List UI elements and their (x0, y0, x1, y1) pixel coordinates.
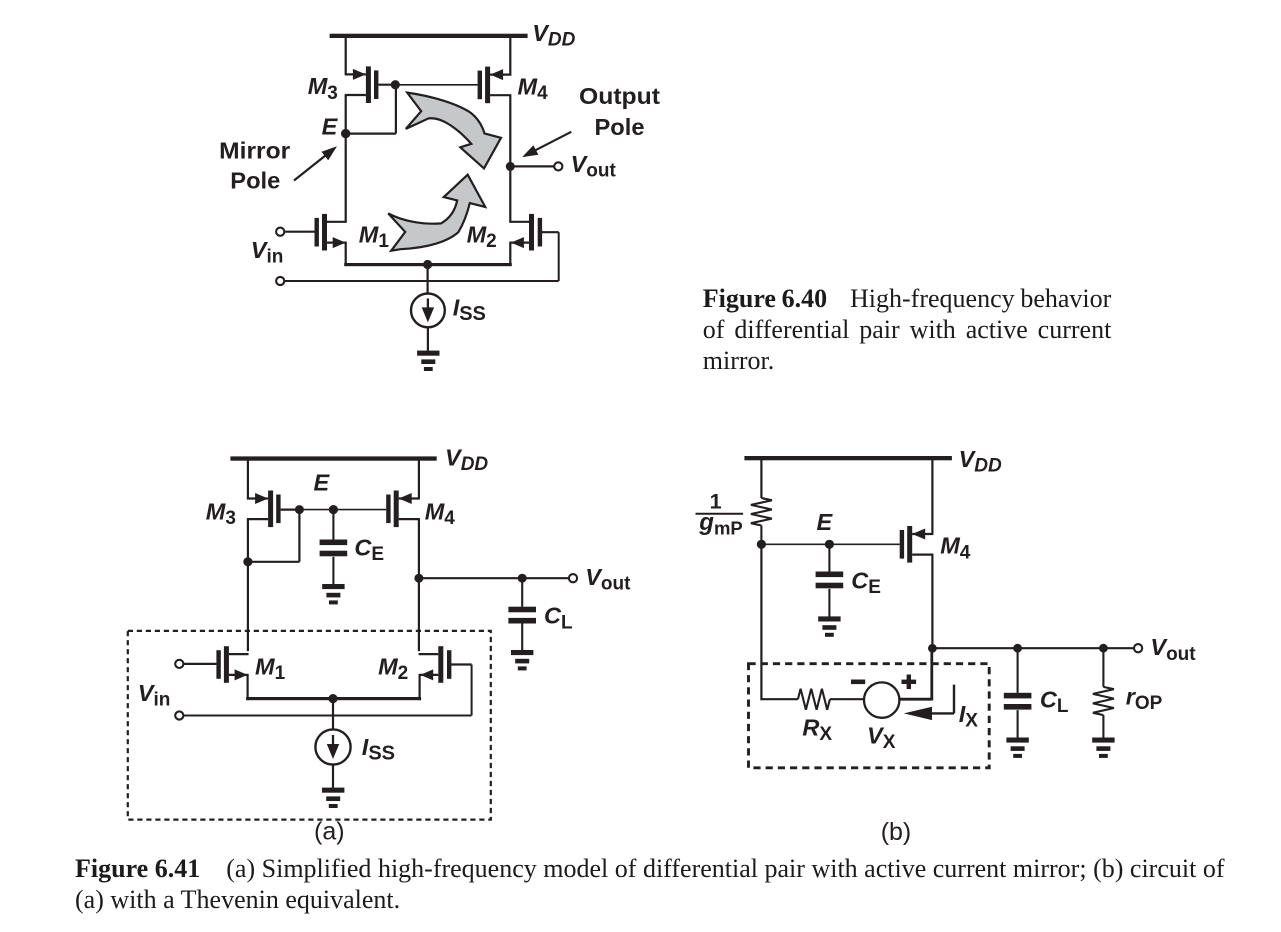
svg-text:M1: M1 (359, 221, 390, 252)
svg-text:rOP: rOP (1126, 684, 1163, 715)
svg-text:M4: M4 (518, 73, 549, 104)
svg-text:E: E (322, 114, 339, 140)
svg-text:M3: M3 (206, 499, 236, 530)
svg-text:VDD: VDD (445, 445, 488, 476)
svg-text:M3: M3 (308, 73, 338, 104)
svg-text:M2: M2 (467, 221, 497, 252)
svg-text:CL: CL (544, 603, 573, 634)
svg-text:E: E (817, 509, 834, 535)
svg-text:RX: RX (802, 715, 832, 746)
svg-text:Vin: Vin (251, 237, 284, 268)
svg-text:CE: CE (851, 567, 881, 598)
svg-text:Vout: Vout (585, 564, 631, 595)
svg-text:ISS: ISS (453, 294, 486, 325)
svg-text:M2: M2 (378, 654, 408, 685)
svg-text:(a): (a) (314, 818, 345, 846)
svg-text:Pole: Pole (230, 168, 280, 194)
svg-text:Vout: Vout (1150, 634, 1196, 665)
svg-text:VDD: VDD (959, 446, 1002, 477)
svg-text:VDD: VDD (532, 20, 575, 51)
svg-text:E: E (314, 470, 331, 496)
svg-text:VX: VX (867, 722, 896, 753)
svg-text:Pole: Pole (595, 114, 645, 140)
svg-text:ISS: ISS (362, 734, 395, 765)
svg-text:M4: M4 (940, 533, 971, 564)
svg-text:(b): (b) (881, 818, 912, 846)
svg-text:CE: CE (354, 534, 384, 565)
svg-text:M4: M4 (425, 499, 456, 530)
svg-text:Mirror: Mirror (219, 138, 290, 164)
svg-text:CL: CL (1040, 687, 1069, 718)
svg-text:Output: Output (579, 83, 660, 109)
svg-text:IX: IX (959, 701, 979, 732)
svg-text:Vout: Vout (571, 151, 617, 182)
svg-text:Vin: Vin (138, 680, 171, 711)
svg-text:M1: M1 (255, 654, 286, 685)
